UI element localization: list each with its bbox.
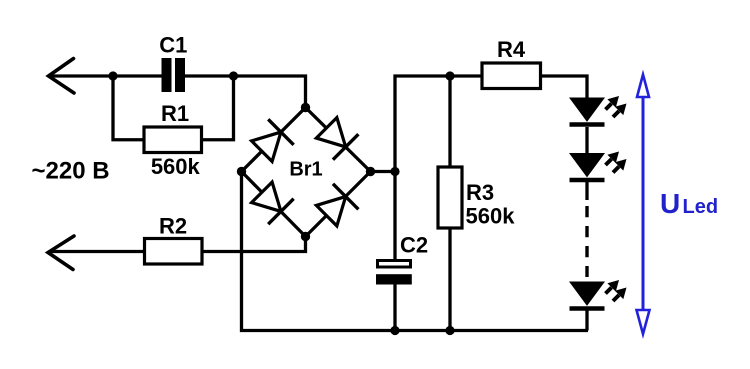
input terminal arrow (bottom left) [48,236,74,270]
diode Br1 bottom-right [314,184,359,229]
diode Br1 bottom-left [249,180,294,225]
svg-text:R3: R3 [466,180,494,205]
diode Br1 top-left [249,119,294,164]
wire R3 top leg [448,76,451,167]
wire R3 bottom leg [448,228,451,331]
svg-text:Led: Led [683,196,719,218]
LED 1 [570,96,627,125]
svg-text:R1: R1 [161,101,189,126]
node bridge bottom [301,232,310,241]
capacitor C1 [162,58,186,92]
node junction right of C1 [229,71,238,80]
node junction top-left [108,71,117,80]
bridge rectifier Br1 [242,108,371,237]
svg-text:Br1: Br1 [289,159,322,181]
wire LED2 down (solid) [585,182,588,201]
input terminal arrow (top left) [49,59,75,94]
resistor R4 [482,63,541,89]
wire R2 right to bridge bottom node [202,237,306,252]
resistor R3 [438,167,462,228]
wire LED1 to LED2 [585,127,588,154]
bridge edge bottom-left [242,172,306,237]
diode Br1 top-right [314,115,359,160]
LED 3 [570,280,627,309]
svg-text:560k: 560k [466,204,516,229]
wire bridge right node to DC+ riser [371,170,396,173]
wire bridge left node down and bottom rail [242,172,589,331]
bridge edge bottom-right [306,172,371,237]
wire DC+ riser and top rail to R4 [395,76,482,172]
node bridge right [366,167,375,176]
node bridge top [301,103,310,112]
wire top input from arrow to C1 [50,74,162,77]
node DC+ junction [390,167,399,176]
wire C2 top leg [393,172,396,260]
wire C2 bottom leg [393,285,396,331]
label U_Led [660,188,718,219]
capacitor C2 (polarized) [376,261,412,285]
svg-text:C1: C1 [159,33,187,58]
wire C1 right to bridge-top corner [185,76,306,108]
wire R1 right leg [202,76,234,140]
node junction at R3 branch [445,71,454,80]
U_Led voltage arrow (blue, hollow heads) [637,75,650,335]
svg-text:U: U [660,188,680,219]
svg-text:560k: 560k [151,154,201,179]
wire bottom input from arrow to R2 [50,250,145,253]
wire LED3 to bottom rail [585,310,588,331]
LED 2 [570,152,627,181]
svg-text:~220 В: ~220 В [32,158,110,185]
resistor R2 [145,239,203,265]
svg-text:R4: R4 [497,37,526,62]
wire R1 left leg [113,76,144,140]
svg-text:R2: R2 [159,214,187,239]
node R3 bottom rail junction [445,326,454,335]
wire R4 right to LED string top [541,76,588,98]
wire dashed (more LEDs) [585,206,588,277]
bridge edge top-left [242,108,306,172]
resistor R1 [144,127,202,153]
node bridge left [237,167,246,176]
svg-text:C2: C2 [400,233,428,258]
bridge edge top-right [306,108,371,172]
node C2 bottom rail junction [390,326,399,335]
